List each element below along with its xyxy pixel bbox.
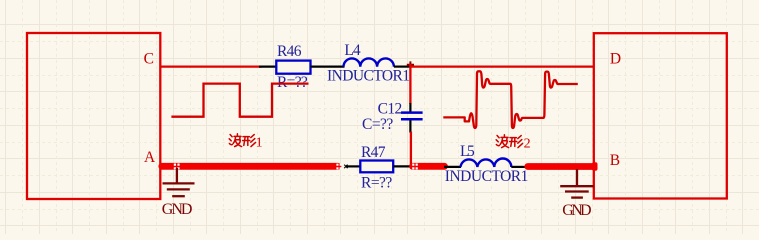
svg-text:GND: GND [562, 202, 591, 219]
resistor R46 [276, 61, 310, 74]
svg-text:R=??: R=?? [361, 175, 392, 192]
resistor R47 [360, 161, 393, 173]
junction vertex marks at C12 branch bus [412, 164, 418, 170]
wire L4 to junction (black) [394, 65, 410, 67]
svg-text:C12: C12 [378, 100, 403, 117]
wire R47 left lead (black) [346, 165, 361, 167]
wire C12 branch lower (red vertical) [410, 132, 412, 168]
junction vertex marks at bus end before R47 [336, 164, 341, 170]
svg-text:1: 1 [256, 136, 263, 151]
inductor L5 [461, 159, 512, 168]
capacitor C12 top lead (black) [409, 103, 411, 112]
wire junction to D (red) [410, 65, 594, 67]
capacitor C12 plates [401, 113, 423, 120]
svg-text:INDUCTOR1: INDUCTOR1 [327, 67, 410, 84]
svg-text:L4: L4 [344, 42, 360, 59]
svg-text:R46: R46 [277, 43, 302, 60]
svg-text:L5: L5 [460, 143, 475, 160]
svg-text:INDUCTOR1: INDUCTOR1 [445, 168, 529, 185]
junction cross marker top of C12 branch [407, 61, 414, 68]
wire C to R46 (red) [160, 65, 261, 67]
wire R46 to L4 (black) [311, 65, 345, 67]
bus wire junction to L5 (thick red) [413, 163, 445, 170]
sheet symbol block left [27, 33, 160, 199]
bus wire L5 to B (thick red) [528, 163, 594, 170]
pin blob at B [592, 162, 598, 171]
wire C12 branch upper (red vertical) [409, 64, 411, 104]
capacitor C12 bottom lead (black) [409, 120, 411, 132]
wire R47 right lead (black) [393, 165, 411, 167]
svg-text:R47: R47 [361, 144, 386, 161]
wire R46 left lead (black) [259, 65, 276, 67]
waveform 2 ringing wave [443, 71, 578, 128]
waveform 1 square wave [171, 84, 308, 117]
wire L5 right lead (black) [511, 166, 525, 168]
svg-text:2: 2 [524, 137, 531, 152]
svg-text:A: A [144, 149, 156, 166]
sheet symbol block right [594, 33, 727, 198]
label 波形1 [229, 134, 255, 147]
svg-text:C=??: C=?? [362, 116, 393, 133]
inductor L4 [344, 58, 394, 66]
ground symbol left [163, 168, 195, 196]
svg-text:C: C [144, 50, 154, 67]
char Bo (wave) [229, 134, 241, 147]
junction vertex marks near A [174, 164, 180, 170]
label 波形2 [496, 135, 522, 148]
bus wire A to R47 (thick red) [162, 163, 338, 170]
svg-text:D: D [610, 51, 621, 68]
char Xing (shape) [243, 135, 256, 147]
wire L5 left lead (black) [444, 166, 461, 168]
ground symbol right [560, 169, 593, 198]
svg-text:B: B [610, 152, 620, 169]
char Bo (wave) [496, 135, 508, 148]
char Xing (shape) [510, 136, 523, 148]
svg-text:GND: GND [162, 201, 193, 218]
pin end cross marker R47 left [344, 165, 347, 169]
